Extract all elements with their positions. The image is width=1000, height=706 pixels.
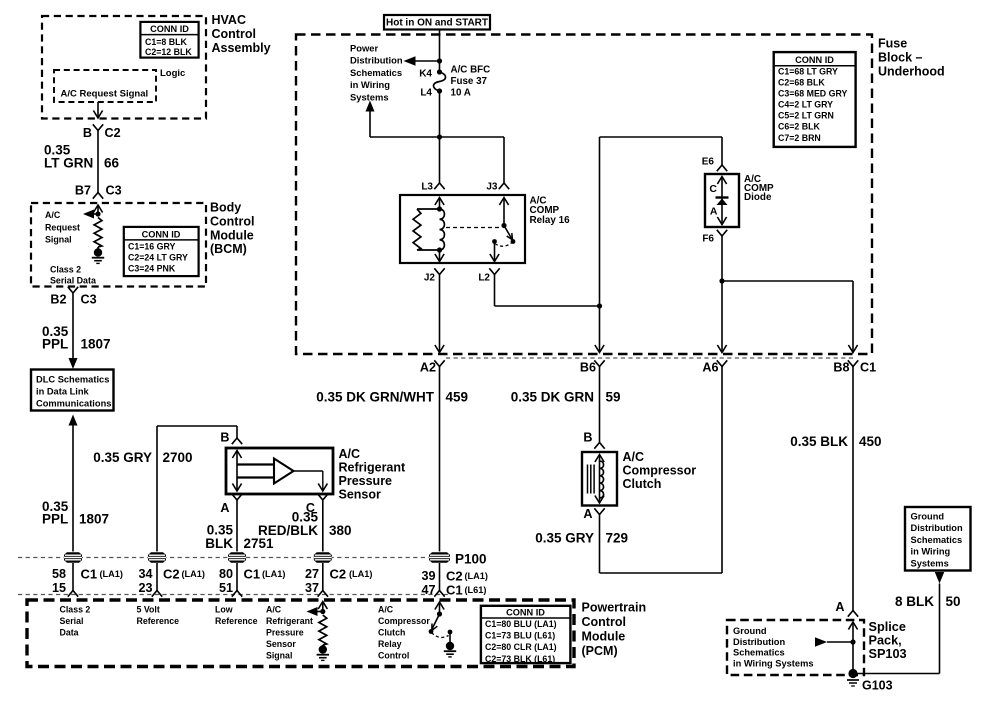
svg-text:0.35 DK GRN/WHT: 0.35 DK GRN/WHT [316, 390, 435, 405]
svg-text:459: 459 [446, 390, 469, 405]
relay switch input arrow [499, 198, 508, 206]
svg-text:450: 450 [859, 434, 882, 449]
svg-text:B: B [583, 431, 592, 445]
svg-text:B6: B6 [580, 360, 596, 374]
svg-text:50: 50 [946, 594, 961, 609]
svg-text:A2: A2 [420, 360, 436, 374]
svg-text:A/C Request Signal: A/C Request Signal [61, 88, 149, 99]
svg-text:15: 15 [52, 581, 66, 595]
splice input arrow [848, 622, 857, 630]
wire A/C request signal to HVAC edge [97, 102, 99, 117]
connector table CONN ID (Fuse Block) [774, 52, 856, 147]
svg-text:C2=73 BLK (L61): C2=73 BLK (L61) [485, 654, 555, 664]
svg-text:(LA1): (LA1) [349, 569, 372, 579]
wire branch to in-wiring-systems arrow [370, 136, 440, 138]
svg-text:Systems: Systems [911, 559, 949, 569]
svg-text:C3=68 MED GRY: C3=68 MED GRY [778, 89, 847, 99]
junction dot PCM sensor signal [320, 609, 325, 614]
inline connector (pin 58) [64, 552, 82, 562]
wire pin80 to PCM [236, 563, 238, 591]
svg-text:C1=73 BLU (L61): C1=73 BLU (L61) [485, 631, 555, 641]
svg-text:8 BLK: 8 BLK [895, 594, 934, 609]
svg-text:C2=24 LT GRY: C2=24 LT GRY [128, 252, 188, 262]
svg-text:Clutch: Clutch [378, 628, 405, 638]
relay coil top bar [417, 208, 440, 210]
wire hot feed into fuse block [439, 30, 441, 62]
svg-text:PPL: PPL [42, 512, 68, 527]
svg-text:CONN ID: CONN ID [142, 229, 181, 239]
wire 0.35 GRY 2700 [156, 426, 158, 552]
svg-text:A: A [710, 206, 718, 218]
module box Powertrain Control Module (PCM) [27, 600, 574, 667]
svg-text:C4=2 LT GRY: C4=2 LT GRY [778, 100, 833, 110]
relay switch output arrow [494, 242, 496, 262]
svg-text:CONN ID: CONN ID [506, 607, 545, 617]
svg-text:C3: C3 [81, 293, 97, 307]
pin E6 at diode entry [717, 165, 727, 171]
svg-text:Communications: Communications [36, 399, 111, 409]
svg-text:C1: C1 [860, 360, 876, 374]
svg-text:C1=8 BLK: C1=8 BLK [145, 37, 187, 47]
wire diode return to B8 [722, 280, 853, 282]
svg-text:0.35 DK GRN: 0.35 DK GRN [511, 390, 594, 405]
svg-text:59: 59 [606, 390, 621, 405]
svg-text:J3: J3 [486, 181, 498, 192]
svg-text:C1: C1 [81, 567, 98, 582]
connector table CONN ID (HVAC) [140, 22, 198, 58]
svg-text:(LA1): (LA1) [182, 569, 205, 579]
svg-text:in Data Link: in Data Link [36, 387, 90, 397]
svg-text:1807: 1807 [79, 512, 109, 527]
svg-text:Relay: Relay [378, 639, 402, 649]
sensor internal rail [232, 451, 241, 459]
svg-text:B: B [83, 126, 92, 140]
wire L2 jog to B6 net [494, 275, 496, 307]
fine connector line under fuse block [446, 357, 853, 359]
PCM switch output dot [448, 630, 453, 635]
svg-text:C1=68 LT GRY: C1=68 LT GRY [778, 67, 838, 77]
fine connector line P100 upper [18, 557, 440, 559]
svg-text:RED/BLK: RED/BLK [258, 523, 318, 538]
svg-text:Module: Module [210, 228, 254, 242]
svg-text:58: 58 [52, 567, 66, 581]
PCM switch contact dot [429, 629, 434, 634]
svg-text:J2: J2 [424, 272, 436, 283]
svg-text:Reference: Reference [137, 616, 180, 626]
svg-text:Pressure: Pressure [339, 474, 393, 488]
wire 0.35 BLK 2751 [236, 500, 238, 552]
svg-text:LT GRN: LT GRN [44, 156, 93, 171]
svg-text:Low: Low [215, 605, 233, 615]
wire pin58 to PCM [72, 563, 74, 591]
wire 0.35 PPL 1807 (DLC to PCM) [69, 415, 78, 426]
svg-text:A: A [220, 501, 229, 515]
arrow to power distribution schematics [414, 60, 440, 62]
svg-text:B7: B7 [75, 183, 91, 197]
junction dot diode return node [719, 278, 724, 283]
svg-text:Distribution: Distribution [350, 55, 403, 66]
svg-text:Diode: Diode [744, 192, 772, 203]
pin F6 at diode exit [717, 230, 727, 236]
svg-text:C5=2 LT GRN: C5=2 LT GRN [778, 111, 834, 121]
svg-text:SP103: SP103 [869, 647, 907, 661]
svg-text:A: A [835, 600, 844, 614]
svg-text:Powertrain: Powertrain [582, 601, 647, 615]
wire diode return to A6 [721, 281, 723, 352]
pin A at clutch exit [594, 508, 604, 514]
svg-text:E6: E6 [702, 157, 715, 168]
relay winding resistor [413, 209, 421, 250]
svg-text:C2=12 BLK: C2=12 BLK [145, 47, 192, 57]
connector table CONN ID (PCM) [481, 606, 571, 663]
svg-text:Block –: Block – [878, 51, 923, 65]
wire pin34 to PCM [156, 563, 158, 591]
sensor output wire [294, 470, 323, 472]
svg-text:51: 51 [219, 581, 233, 595]
relay coil input arrow [435, 198, 444, 206]
svg-text:80: 80 [219, 567, 233, 581]
svg-text:Refrigerant: Refrigerant [266, 616, 313, 626]
svg-text:Pressure: Pressure [266, 628, 304, 638]
svg-text:0.35 BLK: 0.35 BLK [790, 434, 848, 449]
svg-text:G103: G103 [862, 679, 893, 693]
svg-text:in Wiring Systems: in Wiring Systems [733, 658, 814, 668]
PCM switch blade [432, 614, 440, 629]
inline connector (pin 27) [314, 552, 332, 562]
wire J2 to A2 [439, 275, 441, 352]
junction dot power distribution tap [437, 58, 442, 63]
svg-text:Splice: Splice [869, 620, 906, 634]
module box Body Control Module (BCM) [31, 203, 206, 287]
svg-text:0.35 GRY: 0.35 GRY [535, 531, 594, 546]
relay switch travel arc [496, 242, 514, 247]
wire pin39/47 to PCM [439, 563, 441, 591]
junction dot BCM input [95, 211, 100, 216]
pin L2 at relay exit [489, 268, 499, 274]
PCM sensor signal input arrow [318, 602, 327, 610]
svg-text:C1: C1 [244, 567, 261, 582]
wire 8 BLK 50 [935, 572, 945, 584]
svg-text:Pack,: Pack, [869, 634, 902, 648]
wire fuse feed [439, 61, 441, 72]
svg-text:Class 2: Class 2 [60, 605, 91, 615]
clutch plates [587, 465, 589, 494]
ground G103 [847, 679, 859, 681]
svg-text:C2=68 BLK: C2=68 BLK [778, 78, 825, 88]
junction dot splice internal [850, 639, 855, 644]
svg-text:729: 729 [606, 531, 629, 546]
junction dot L2/B6 [597, 303, 602, 308]
wire fuse output to relay L3 [439, 137, 441, 183]
wire 0.35 DK GRN 59 [599, 367, 601, 443]
svg-text:Schematics: Schematics [350, 67, 402, 78]
junction dot relay coil bottom [437, 247, 442, 252]
wire 0.35 RED/BLK 380 [322, 500, 324, 552]
relay U1 A/C COMP Relay 16 box [400, 195, 525, 263]
svg-text:39: 39 [421, 569, 435, 583]
reference box Ground Distribution Schematics in Wiring Systems [905, 507, 971, 571]
svg-text:L2: L2 [478, 272, 490, 283]
ground (PCM switch) [446, 642, 454, 650]
module box Fuse Block - Underhood [296, 35, 872, 355]
diode internal wire [717, 177, 726, 185]
junction dot relay switch pivot [501, 223, 506, 228]
connector table CONN ID (BCM) [124, 227, 199, 276]
svg-text:47: 47 [421, 583, 435, 597]
svg-text:Hot in ON and START: Hot in ON and START [386, 18, 488, 29]
svg-text:Control: Control [210, 215, 254, 229]
clutch coil [600, 461, 604, 498]
svg-text:Signal: Signal [45, 235, 72, 245]
relay switch contact dot [511, 239, 516, 244]
relay coil bottom bar [417, 249, 440, 251]
ground (PCM internal) [322, 645, 324, 646]
svg-text:Data: Data [60, 628, 79, 638]
pin C at sensor exit [318, 494, 328, 500]
svg-text:L3: L3 [421, 181, 433, 192]
module box Splice Pack SP103 [727, 620, 864, 675]
relay switch blade [504, 226, 513, 241]
svg-text:Serial: Serial [60, 616, 84, 626]
wire 0.35 DK GRN/WHT 459 [439, 367, 441, 552]
svg-text:A/C: A/C [266, 605, 282, 615]
wire fuse output [439, 91, 441, 137]
svg-text:B2: B2 [50, 293, 66, 307]
svg-text:Sensor: Sensor [266, 639, 296, 649]
svg-text:Refrigerant: Refrigerant [339, 461, 407, 475]
svg-text:A: A [583, 507, 592, 521]
junction dot PCM switch pivot [437, 611, 442, 616]
svg-text:C2=80 CLR (LA1): C2=80 CLR (LA1) [485, 642, 557, 652]
PCM clutch relay control arrow [435, 602, 444, 610]
wire 0.35 BLK 450 [852, 367, 854, 611]
reference box DLC Schematics in Data Link Communications [31, 370, 114, 411]
svg-text:C2: C2 [446, 569, 463, 584]
svg-text:23: 23 [138, 581, 152, 595]
svg-text:(LA1): (LA1) [465, 571, 488, 581]
fine connector line P100 lower [18, 594, 450, 596]
wire 0.35 PPL 1807 (BCM to DLC) [72, 293, 74, 364]
svg-text:Class 2: Class 2 [50, 265, 81, 275]
svg-text:Schematics: Schematics [733, 648, 785, 658]
svg-text:34: 34 [138, 567, 152, 581]
relay actuation dashed link [446, 227, 499, 229]
wire 0.35 LT GRN 66 [97, 131, 99, 193]
svg-text:Control: Control [212, 27, 256, 41]
svg-text:380: 380 [329, 523, 352, 538]
junction dot fuse output node [437, 134, 442, 139]
wire branch to J3 [440, 136, 505, 138]
inline connector (pin 34) [148, 552, 166, 562]
svg-text:Compressor: Compressor [378, 616, 430, 626]
arrow from ground distribution (splice internal) [815, 637, 827, 647]
svg-text:Body: Body [210, 201, 241, 215]
svg-text:Control: Control [378, 651, 409, 661]
svg-text:K4: K4 [419, 68, 432, 79]
svg-text:2751: 2751 [244, 536, 275, 551]
svg-text:in Wiring: in Wiring [911, 547, 951, 557]
svg-text:A/C: A/C [378, 605, 394, 615]
arrow left (PCM internal) [311, 611, 323, 613]
svg-text:(L61): (L61) [465, 585, 487, 595]
svg-text:PPL: PPL [42, 337, 68, 352]
svg-text:A/C: A/C [339, 447, 361, 461]
svg-text:Reference: Reference [215, 616, 258, 626]
PCM switch ground wire [449, 632, 451, 645]
svg-text:66: 66 [104, 156, 120, 171]
svg-text:Module: Module [582, 630, 626, 644]
pin J3 at relay entry [499, 183, 509, 189]
svg-text:C6=2 BLK: C6=2 BLK [778, 122, 820, 132]
svg-text:in Wiring: in Wiring [350, 79, 390, 90]
clutch internal arrows [595, 455, 604, 463]
wire B6 vertical inside fuse block [599, 137, 601, 352]
module box HVAC Control Assembly [42, 16, 206, 119]
svg-text:1807: 1807 [81, 337, 111, 352]
svg-text:Systems: Systems [350, 92, 389, 103]
svg-text:C2: C2 [330, 567, 347, 582]
relay coil inductor [440, 209, 445, 250]
svg-text:A/C BFC: A/C BFC [451, 65, 491, 76]
junction dot relay coil top [437, 206, 442, 211]
svg-text:(LA1): (LA1) [262, 569, 285, 579]
pin A2 [434, 360, 444, 366]
svg-text:27: 27 [305, 567, 319, 581]
svg-text:A/C: A/C [623, 450, 645, 464]
logic box [54, 70, 156, 102]
resistor R-BCM [94, 218, 102, 248]
inline connector P100 (pin 39) [429, 552, 450, 562]
relay coil output arrow [439, 250, 441, 261]
svg-text:Signal: Signal [266, 651, 292, 661]
PCM switch travel arc [432, 633, 449, 638]
sensor op-amp triangle [274, 459, 294, 484]
svg-text:B8: B8 [833, 360, 849, 374]
relay switch output dot [492, 239, 497, 244]
wire pin27 to PCM [322, 563, 324, 591]
sensor B1 A/C Refrigerant Pressure Sensor box [226, 448, 333, 494]
svg-text:2700: 2700 [163, 450, 193, 465]
svg-text:P100: P100 [455, 552, 487, 567]
wire 0.35 GRY 729 [599, 515, 601, 574]
pin A6 [717, 360, 727, 366]
svg-text:F6: F6 [702, 234, 714, 245]
svg-text:C1=16 GRY: C1=16 GRY [128, 241, 175, 251]
inline connector (pin 80) [228, 552, 246, 562]
svg-text:C7=2 BRN: C7=2 BRN [778, 133, 821, 143]
wire switched feed to diode E6 [600, 136, 723, 138]
svg-text:CONN ID: CONN ID [150, 24, 189, 34]
svg-text:(PCM): (PCM) [582, 644, 618, 658]
svg-text:C1=80 BLU (LA1): C1=80 BLU (LA1) [485, 619, 557, 629]
svg-text:(BCM): (BCM) [210, 242, 247, 256]
pin B8 [848, 360, 858, 366]
pin B2 / C3 at BCM exit [68, 287, 78, 293]
wire F6 down to ground net [721, 236, 723, 281]
ground (BCM internal) [97, 247, 99, 249]
svg-text:C3: C3 [106, 183, 122, 197]
svg-text:B: B [220, 430, 229, 444]
svg-text:Control: Control [582, 615, 626, 629]
pin B / C2 connector at HVAC exit [93, 124, 103, 130]
svg-text:Distribution: Distribution [911, 523, 963, 533]
svg-text:0.35 GRY: 0.35 GRY [93, 450, 152, 465]
arrow to class 2 serial data (left) [87, 213, 98, 215]
svg-text:37: 37 [305, 581, 319, 595]
svg-text:Fuse: Fuse [878, 36, 907, 50]
svg-text:Logic: Logic [160, 68, 185, 79]
splice node dot [848, 669, 857, 678]
pin J2 at relay exit [434, 268, 444, 274]
svg-text:Ground: Ground [911, 511, 945, 521]
svg-text:Distribution: Distribution [733, 637, 785, 647]
svg-text:HVAC: HVAC [212, 13, 247, 27]
svg-text:Ground: Ground [733, 626, 767, 636]
svg-text:C: C [709, 183, 717, 195]
svg-text:Fuse 37: Fuse 37 [451, 76, 488, 87]
svg-text:Power: Power [350, 42, 378, 53]
svg-text:CONN ID: CONN ID [795, 55, 834, 65]
svg-text:C3=24 PNK: C3=24 PNK [128, 263, 176, 273]
svg-text:A6: A6 [702, 360, 718, 374]
svg-text:10 A: 10 A [451, 88, 471, 99]
svg-text:Serial Data: Serial Data [50, 276, 96, 286]
svg-text:(LA1): (LA1) [100, 569, 123, 579]
svg-text:Request: Request [45, 222, 80, 232]
svg-text:C1: C1 [446, 582, 463, 597]
svg-text:C2: C2 [163, 567, 180, 582]
svg-text:A/C: A/C [45, 210, 61, 220]
pin A at sensor exit [232, 494, 242, 500]
fuse F37 A/C BFC 10A [437, 69, 442, 74]
svg-text:Relay 16: Relay 16 [530, 215, 571, 226]
svg-text:5 Volt: 5 Volt [137, 605, 160, 615]
svg-text:Sensor: Sensor [339, 488, 382, 502]
wire BCM input stub [93, 205, 102, 213]
svg-text:Compressor: Compressor [623, 463, 697, 477]
reference label Hot in ON and START [384, 15, 490, 30]
svg-text:Assembly: Assembly [212, 41, 271, 55]
diode symbol [716, 196, 729, 198]
resistor R-PCM [319, 615, 327, 645]
svg-text:C2: C2 [105, 126, 121, 140]
wire sensor B entry [236, 426, 238, 438]
svg-text:DLC Schematics: DLC Schematics [36, 375, 109, 385]
svg-text:BLK: BLK [205, 536, 233, 551]
svg-text:Underhood: Underhood [878, 65, 945, 79]
sensor amplifier feed lines [237, 463, 274, 465]
pin B6 [594, 360, 604, 366]
svg-text:Clutch: Clutch [623, 477, 662, 491]
pin L3 at relay entry [434, 183, 444, 189]
diode D1 A/C COMP Diode box [705, 174, 739, 227]
clutch L1 A/C Compressor Clutch box [582, 452, 617, 506]
svg-text:L4: L4 [420, 87, 432, 98]
svg-text:Schematics: Schematics [911, 535, 963, 545]
